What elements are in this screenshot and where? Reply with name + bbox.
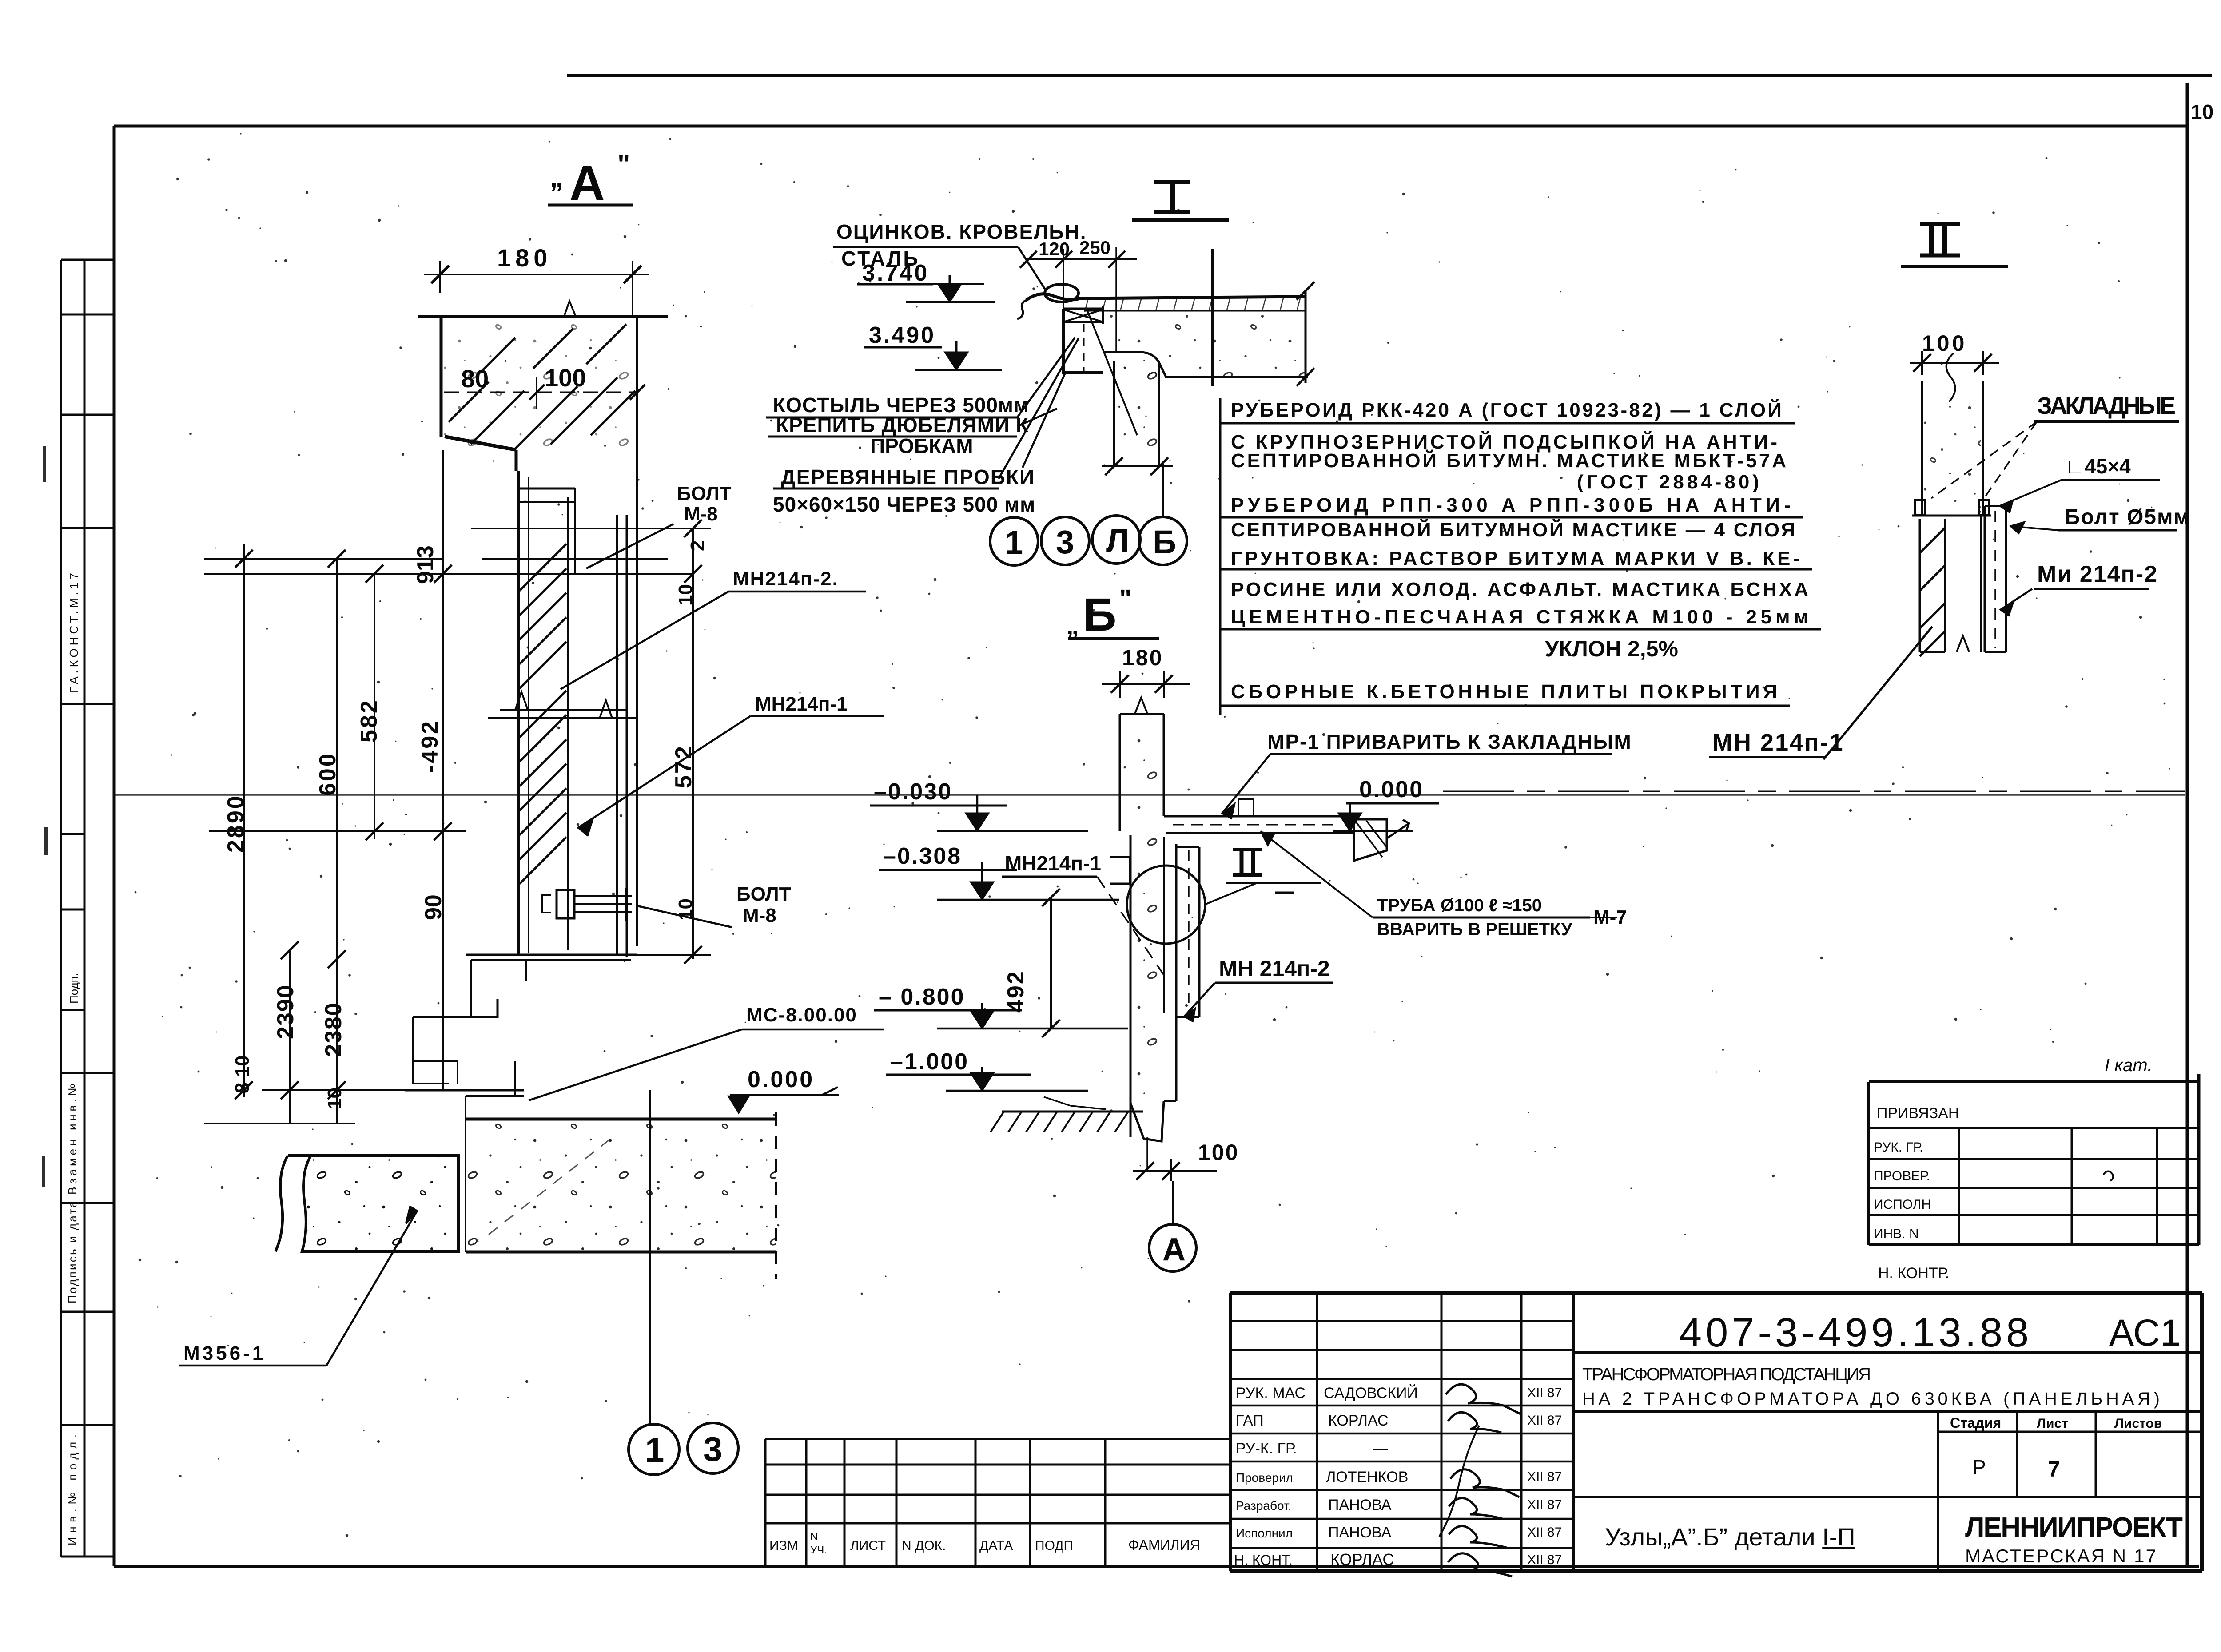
svg-text:7: 7 (2048, 1457, 2060, 1481)
svg-text:МН214п-1: МН214п-1 (1005, 852, 1101, 875)
svg-text:ТРАНСФОРМАТОРНАЯ ПОДСТАНЦИЯ: ТРАНСФОРМАТОРНАЯ ПОДСТАНЦИЯ (1582, 1365, 1871, 1384)
svg-text:ПРИВЯЗАН: ПРИВЯЗАН (1877, 1105, 1959, 1122)
svg-text:N ДОК.: N ДОК. (902, 1538, 946, 1553)
svg-text:БОЛТ: БОЛТ (677, 483, 732, 504)
svg-text:10: 10 (324, 1088, 346, 1109)
svg-text:ВВАРИТЬ В РЕШЕТКУ: ВВАРИТЬ В РЕШЕТКУ (1377, 920, 1572, 939)
svg-text:РОСИНЕ ИЛИ ХОЛОД. АСФАЛЬТ.: РОСИНЕ ИЛИ ХОЛОД. АСФАЛЬТ. МАСТИКА БСНХА (1231, 579, 1808, 600)
svg-text:РУК. МАС: РУК. МАС (1236, 1385, 1306, 1402)
svg-text:Стадия: Стадия (1950, 1415, 2001, 1431)
svg-text:ИНВ. N: ИНВ. N (1874, 1227, 1919, 1241)
svg-text:Инв.№ подл.: Инв.№ подл. (66, 1434, 79, 1545)
svg-text:МН214п-1: МН214п-1 (755, 693, 848, 715)
svg-text:Б: Б (1083, 589, 1116, 641)
svg-text:": " (617, 149, 630, 179)
svg-text:М-7: М-7 (1593, 906, 1627, 928)
svg-text:САДОВСКИЙ: САДОВСКИЙ (1324, 1385, 1418, 1402)
svg-text:М-8: М-8 (684, 503, 718, 525)
svg-text:Болт Ø5мм: Болт Ø5мм (2065, 505, 2190, 529)
svg-text:РУБЕРОИД РПП-300 А РПП-300Б: РУБЕРОИД РПП-300 А РПП-300Б НА АНТИ- (1231, 494, 1791, 516)
svg-text:ПОДП: ПОДП (1035, 1538, 1073, 1553)
svg-text:Н. КОНТ.: Н. КОНТ. (1234, 1552, 1293, 1568)
svg-text:913: 913 (413, 545, 438, 584)
svg-text:ГА.КОНСТ.М.17: ГА.КОНСТ.М.17 (67, 573, 80, 693)
svg-text:10: 10 (2191, 100, 2213, 123)
svg-text:180: 180 (1122, 645, 1163, 670)
svg-text:СБОРНЫЕ К.БЕТОННЫЕ ПЛИТЫ: СБОРНЫЕ К.БЕТОННЫЕ ПЛИТЫ ПОКРЫТИЯ (1231, 681, 1777, 703)
svg-text:600: 600 (315, 752, 341, 796)
svg-text:ХII 87: ХII 87 (1527, 1386, 1562, 1400)
svg-text:Подп.: Подп. (67, 973, 80, 1004)
svg-text:ИЗМ: ИЗМ (769, 1538, 798, 1553)
svg-text:ПАНОВА: ПАНОВА (1328, 1497, 1392, 1513)
svg-text:ФАМИЛИЯ: ФАМИЛИЯ (1128, 1537, 1200, 1553)
svg-text:100: 100 (545, 364, 586, 392)
svg-text:„: „ (550, 163, 563, 192)
svg-text:МН214п-2.: МН214п-2. (733, 568, 839, 590)
svg-text:ХII 87: ХII 87 (1527, 1469, 1562, 1484)
svg-text:582: 582 (356, 699, 382, 743)
svg-text:2390: 2390 (273, 984, 299, 1039)
svg-text:РУК. ГР.: РУК. ГР. (1874, 1140, 1923, 1155)
svg-text:СЕПТИРОВАННОЙ БИТУМН. МАСТИКЕ: СЕПТИРОВАННОЙ БИТУМН. МАСТИКЕ МБКТ-57А (1231, 449, 1786, 472)
svg-text:Исполнил: Исполнил (1236, 1526, 1293, 1540)
svg-text:ПАНОВА: ПАНОВА (1328, 1524, 1392, 1541)
svg-text:МН 214п-1: МН 214п-1 (1712, 729, 1844, 756)
svg-text:492: 492 (1003, 970, 1029, 1013)
svg-text:НА 2 ТРАНСФОРМАТОРА ДО 630КВА: НА 2 ТРАНСФОРМАТОРА ДО 630КВА (ПАНЕЛЬНАЯ… (1582, 1389, 2160, 1409)
svg-text:ПРОВЕР.: ПРОВЕР. (1874, 1169, 1930, 1183)
svg-text:ЛИСТ: ЛИСТ (850, 1538, 886, 1553)
svg-text:МР-1 ПРИВАРИТЬ К ЗАКЛАДНЫМ: МР-1 ПРИВАРИТЬ К ЗАКЛАДНЫМ (1267, 730, 1632, 753)
svg-text:100: 100 (1198, 1140, 1239, 1165)
svg-text:Проверил: Проверил (1236, 1471, 1293, 1485)
svg-text:ДЕРЕВЯННЫЕ ПРОБКИ: ДЕРЕВЯННЫЕ ПРОБКИ (781, 465, 1035, 488)
svg-text:ХII 87: ХII 87 (1527, 1553, 1562, 1567)
svg-text:ИСПОЛН: ИСПОЛН (1874, 1197, 1931, 1212)
svg-text:–0.308: –0.308 (883, 843, 962, 869)
svg-text:КОРЛАС: КОРЛАС (1330, 1550, 1394, 1569)
svg-text:М356-1: М356-1 (183, 1342, 266, 1364)
svg-text:УКЛОН 2,5%: УКЛОН 2,5% (1545, 636, 1678, 661)
svg-text:– 0.800: – 0.800 (879, 984, 965, 1010)
svg-text:1: 1 (645, 1430, 664, 1469)
svg-text:250: 250 (1079, 237, 1110, 258)
svg-text:—: — (1373, 1440, 1388, 1457)
svg-text:Подпись и дата: Подпись и дата (66, 1201, 79, 1303)
svg-text:∟45×4: ∟45×4 (2065, 455, 2131, 478)
svg-text:ЗАКЛАДНЫЕ: ЗАКЛАДНЫЕ (2037, 393, 2177, 419)
svg-text:Н. КОНТР.: Н. КОНТР. (1878, 1265, 1949, 1282)
svg-text:М-8: М-8 (743, 905, 776, 926)
svg-text:120: 120 (1039, 238, 1070, 259)
svg-text:Л: Л (1106, 522, 1129, 559)
svg-text:Б: Б (1153, 524, 1176, 560)
svg-text:ГРУНТОВКА: РАСТВОР БИТУМА М: ГРУНТОВКА: РАСТВОР БИТУМА МАРКИ V В. КЕ- (1231, 548, 1799, 569)
svg-text:Взамен инв.№: Взамен инв.№ (66, 1084, 79, 1195)
svg-text:": " (1119, 584, 1132, 613)
svg-text:ЛОТЕНКОВ: ЛОТЕНКОВ (1326, 1469, 1408, 1485)
svg-text:Р: Р (1972, 1456, 1986, 1479)
svg-text:Листов: Листов (2114, 1416, 2162, 1431)
svg-text:8 10: 8 10 (231, 1055, 253, 1093)
svg-text:А: А (1162, 1232, 1186, 1267)
svg-text:2890: 2890 (223, 794, 249, 853)
svg-text:МН 214п-2: МН 214п-2 (1219, 956, 1330, 981)
svg-text:3.740: 3.740 (862, 260, 929, 286)
svg-text:-492: -492 (417, 719, 443, 773)
svg-text:ХII 87: ХII 87 (1527, 1413, 1562, 1428)
svg-text:Ми 214п-2: Ми 214п-2 (2037, 561, 2158, 587)
svg-text:МАСТЕРСКАЯ N 17: МАСТЕРСКАЯ N 17 (1965, 1545, 2156, 1566)
svg-text:100: 100 (1922, 331, 1967, 356)
svg-text:ГАП: ГАП (1236, 1412, 1264, 1429)
svg-text:180: 180 (497, 244, 552, 272)
svg-text:2: 2 (687, 540, 708, 551)
svg-text:ЛЕННИИПРОЕКТ: ЛЕННИИПРОЕКТ (1965, 1512, 2183, 1543)
svg-text:3: 3 (1056, 524, 1074, 560)
svg-text:ХII 87: ХII 87 (1527, 1497, 1562, 1512)
svg-text:0.000: 0.000 (748, 1067, 814, 1092)
svg-text:80: 80 (461, 365, 489, 393)
svg-text:–0.030: –0.030 (874, 779, 952, 805)
svg-text:ПРОБКАМ: ПРОБКАМ (870, 434, 973, 457)
svg-text:I кат.: I кат. (2105, 1056, 2152, 1075)
svg-text:ДАТА: ДАТА (979, 1538, 1013, 1553)
svg-text:50×60×150 ЧЕРЕЗ 500 мм: 50×60×150 ЧЕРЕЗ 500 мм (773, 493, 1035, 516)
svg-text:„: „ (1066, 611, 1079, 640)
svg-text:90: 90 (421, 894, 446, 920)
svg-text:3: 3 (703, 1430, 722, 1469)
svg-text:АС1: АС1 (2109, 1312, 2181, 1354)
svg-text:2380: 2380 (321, 1002, 346, 1057)
svg-text:ХII 87: ХII 87 (1527, 1525, 1562, 1540)
svg-text:Разработ.: Разработ. (1236, 1499, 1291, 1513)
svg-text:3.490: 3.490 (869, 322, 935, 348)
svg-text:Узлы„А”.Б” детали I-П: Узлы„А”.Б” детали I-П (1605, 1523, 1855, 1551)
svg-text:ТРУБА Ø100 ℓ ≈150: ТРУБА Ø100 ℓ ≈150 (1377, 896, 1542, 915)
svg-text:ЦЕМЕНТНО-ПЕСЧАНАЯ СТЯЖКА: ЦЕМЕНТНО-ПЕСЧАНАЯ СТЯЖКА М100 - 25мм (1231, 606, 1808, 628)
svg-text:0.000: 0.000 (1359, 777, 1424, 802)
svg-text:N: N (810, 1531, 818, 1543)
svg-text:РУ-К. ГР.: РУ-К. ГР. (1236, 1440, 1297, 1457)
svg-text:407-3-499.13.88: 407-3-499.13.88 (1679, 1310, 2032, 1355)
svg-text:МС-8.00.00: МС-8.00.00 (746, 1004, 857, 1026)
svg-text:(ГОСТ 2884-80): (ГОСТ 2884-80) (1577, 471, 1759, 493)
svg-text:Лист: Лист (2037, 1416, 2068, 1431)
svg-text:1: 1 (1005, 524, 1023, 561)
svg-text:КРЕПИТЬ ДЮБЕЛЯМИ К: КРЕПИТЬ ДЮБЕЛЯМИ К (776, 413, 1029, 437)
svg-text:РУБЕРОИД РКК-420 А (ГОСТ 10923: РУБЕРОИД РКК-420 А (ГОСТ 10923-82) — 1 С… (1231, 398, 1782, 421)
svg-text:СЕПТИРОВАННОЙ БИТУМНОЙ МАСТИКЕ: СЕПТИРОВАННОЙ БИТУМНОЙ МАСТИКЕ — 4 СЛОЯ (1231, 518, 1795, 541)
svg-text:БОЛТ: БОЛТ (736, 883, 791, 905)
svg-text:УЧ.: УЧ. (810, 1544, 827, 1556)
svg-text:КОРЛАС: КОРЛАС (1328, 1412, 1388, 1429)
svg-text:10: 10 (675, 584, 697, 606)
svg-text:А: А (569, 156, 605, 210)
svg-text:–1.000: –1.000 (890, 1049, 969, 1075)
